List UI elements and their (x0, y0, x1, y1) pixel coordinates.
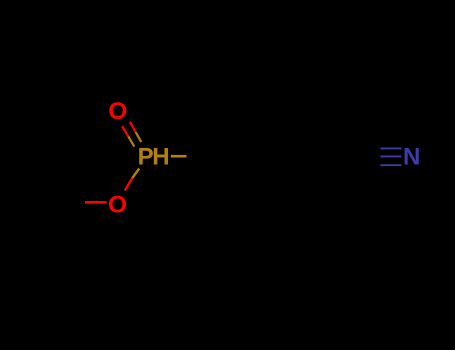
wire P=O double bond line 2 (P-side half, dark gold) (128, 136, 134, 146)
wire P to ester O bond (P-side half, dark gold) (132, 169, 139, 179)
wire P=O double bond line 1 (P-side half, dark gold) (136, 132, 142, 142)
wire P=O double bond line 2 (O-side half, red) (122, 126, 128, 136)
wire O to ethyl carbon bond (O-side half, red) (85, 201, 107, 204)
wire C#N triple bond line top (N-side half, blue) (380, 147, 401, 149)
wire P to ester O bond (O-side half, red) (125, 178, 133, 191)
wire P=O double bond line 1 (O-side half, red) (130, 122, 136, 132)
svg-text:O: O (108, 98, 127, 125)
svg-text:PH: PH (138, 144, 169, 171)
wire C#N triple bond line bottom (N-side half, blue) (380, 164, 401, 166)
wire C#N triple bond line middle (N-side half, blue) (380, 155, 401, 157)
wire P to ring carbon bond (P-side half, dark gold) (171, 155, 187, 158)
svg-text:O: O (108, 192, 127, 219)
svg-text:N: N (403, 144, 420, 171)
